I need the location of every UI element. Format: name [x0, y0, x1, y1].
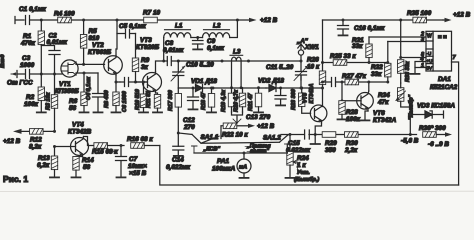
junction — [314, 133, 317, 136]
resistor R27 — [342, 73, 367, 85]
resistor R14 — [73, 157, 94, 177]
ground — [361, 119, 370, 121]
wire +12V arrow right — [443, 12, 471, 23]
svg-text:R14: R14 — [82, 157, 94, 164]
svg-text:W: W — [427, 34, 432, 40]
svg-text:+12 В: +12 В — [453, 12, 471, 19]
svg-text:КТ342А: КТ342А — [309, 84, 315, 104]
svg-text:R25 33 к: R25 33 к — [330, 53, 356, 60]
capacitor C12 — [183, 88, 199, 131]
svg-text:910: 910 — [89, 35, 100, 42]
inductor L3 current transformer — [230, 49, 243, 88]
svg-text:VD3 КС156А: VD3 КС156А — [417, 103, 455, 110]
resistor R7 — [143, 10, 160, 23]
ground — [112, 111, 121, 113]
wire +12V arrow top — [237, 17, 277, 24]
wire pin8 — [401, 57, 426, 59]
svg-text:R8 430: R8 430 — [104, 90, 110, 108]
capacitor C8 series — [163, 40, 184, 66]
svg-text:-U: -U — [427, 51, 432, 56]
svg-text:R3 10к: R3 10к — [46, 91, 52, 110]
ground — [80, 111, 89, 113]
svg-text:10мк×: 10мк× — [128, 163, 147, 170]
wire VT3 emitter — [156, 93, 158, 95]
resistor R20 — [234, 88, 246, 112]
wire R25 row — [323, 62, 388, 64]
junction — [341, 81, 344, 84]
wire R33 chain — [400, 20, 402, 58]
svg-text:350: 350 — [325, 147, 336, 154]
svg-text:R10 510: R10 510 — [135, 89, 141, 110]
svg-text:С5 0,1мк: С5 0,1мк — [119, 23, 147, 30]
svg-text:"Калибр": "Калибр" — [408, 94, 415, 120]
wire VT3 collector to RF line — [156, 61, 168, 72]
svg-text:С9: С9 — [207, 38, 216, 45]
transistor VT2 — [88, 42, 122, 75]
svg-text:КТ603Б: КТ603Б — [88, 49, 112, 56]
svg-text:SA1.1: SA1.1 — [201, 134, 219, 141]
transistor VT3 — [136, 37, 162, 93]
svg-text:3к: 3к — [141, 64, 149, 71]
capacitor C16 — [338, 20, 386, 34]
svg-text:VT3: VT3 — [140, 37, 152, 44]
svg-text:С13 270: С13 270 — [246, 114, 271, 121]
wire VT2 emitter to C6 — [116, 75, 120, 82]
resistor R19 — [221, 88, 235, 112]
diode VD2 — [258, 78, 284, 92]
resistor R29 — [322, 132, 337, 154]
input terminal Вход — [0, 54, 25, 78]
junction — [162, 60, 165, 63]
junction — [409, 113, 412, 116]
resistor R2 — [24, 74, 45, 111]
resistor R15 — [92, 143, 118, 156]
svg-text:= =: = = — [438, 35, 447, 41]
svg-text:R26: R26 — [307, 57, 319, 64]
svg-text:РА1: РА1 — [217, 158, 229, 165]
svg-text:XW1: XW1 — [304, 44, 319, 51]
svg-text:33к: 33к — [371, 71, 382, 78]
wire R15 to R16 — [108, 145, 125, 147]
svg-text:R17 360: R17 360 — [168, 90, 174, 111]
svg-text:DA1: DA1 — [438, 76, 451, 83]
svg-text:мА: мА — [239, 165, 247, 171]
junction — [142, 81, 145, 84]
svg-text:3: 3 — [421, 37, 424, 43]
svg-text:100мкА: 100мкА — [212, 166, 236, 173]
junction — [321, 61, 324, 64]
svg-text:R12: R12 — [30, 137, 42, 144]
resistor R25 — [330, 53, 356, 65]
capacitor C4 — [86, 73, 104, 111]
svg-text:+U: +U — [427, 58, 433, 63]
wire rail top right — [323, 19, 444, 21]
node R33 top — [399, 19, 402, 22]
resistor R12 — [29, 129, 43, 151]
svg-text:R22 10 к: R22 10 к — [222, 132, 248, 139]
capacitor C2 — [41, 33, 67, 75]
junction — [321, 81, 324, 84]
svg-text:R18 47: R18 47 — [201, 91, 207, 110]
resistor R36 — [410, 125, 452, 148]
svg-text:270: 270 — [183, 124, 195, 131]
resistor R33 — [398, 60, 412, 83]
junction — [53, 145, 56, 148]
svg-text:КТ342А: КТ342А — [373, 117, 397, 124]
capacitor C7 — [112, 146, 147, 178]
svg-text:4: 4 — [420, 57, 424, 63]
resistor R16 — [127, 136, 153, 148]
capacitor C13 — [246, 88, 286, 121]
svg-text:R16 68 к: R16 68 к — [127, 136, 153, 143]
svg-text:SA1.2: SA1.2 — [263, 135, 281, 142]
svg-text:R24: R24 — [297, 155, 309, 162]
ground — [240, 177, 249, 179]
svg-text:R5: R5 — [89, 28, 98, 35]
svg-text:R7 10: R7 10 — [143, 10, 160, 17]
junction — [82, 63, 85, 66]
ground — [117, 176, 126, 178]
junction — [386, 61, 389, 64]
resistor R9 — [132, 34, 149, 83]
resistor R1 — [20, 20, 45, 74]
svg-text:0,01мк: 0,01мк — [47, 39, 68, 46]
svg-text:VT4: VT4 — [72, 122, 84, 129]
ground — [338, 118, 347, 120]
svg-text:R28: R28 — [346, 109, 358, 116]
svg-text:С1 0,1мк: С1 0,1мк — [19, 6, 47, 13]
junction — [134, 81, 137, 84]
pin 1 ground — [411, 63, 427, 74]
svg-text:+12 В: +12 В — [3, 138, 21, 145]
resistor R4 — [54, 11, 75, 23]
svg-text:0,1мк: 0,1мк — [207, 45, 225, 52]
svg-text:2,2к: 2,2к — [344, 147, 358, 154]
svg-text:R34: R34 — [378, 92, 390, 99]
diode VD1 — [191, 78, 217, 92]
wire RF line — [178, 60, 301, 62]
svg-text:С12: С12 — [183, 117, 195, 124]
svg-text:R15 68 к: R15 68 к — [92, 149, 118, 156]
ground — [276, 104, 285, 106]
transistor VT4 — [68, 122, 92, 157]
resistor R35 — [407, 10, 432, 23]
junction — [116, 19, 119, 22]
svg-text:R21 47: R21 47 — [248, 92, 254, 111]
capacitor C15 — [286, 130, 311, 154]
svg-text:R29: R29 — [325, 140, 337, 147]
wire rail top — [41, 19, 238, 21]
junction — [341, 99, 344, 102]
junction — [212, 87, 215, 90]
wire pin2 — [369, 36, 426, 38]
junction — [115, 81, 118, 84]
junction — [368, 61, 371, 64]
wire VT5 emitter — [315, 123, 321, 135]
svg-text:R9: R9 — [141, 57, 150, 64]
junction — [53, 73, 56, 76]
junction — [342, 19, 345, 22]
capacitor C1 — [19, 6, 47, 25]
svg-text:R33 33к: R33 33к — [405, 60, 411, 82]
trimmer R24 — [287, 135, 320, 184]
svg-text:6,2к: 6,2к — [37, 162, 50, 169]
svg-text:R20 4,7к: R20 4,7к — [234, 89, 240, 112]
resistor R3 — [46, 74, 58, 131]
resistor R6 — [69, 73, 87, 112]
wire meter row — [281, 134, 410, 136]
svg-text:КП350Б: КП350Б — [55, 88, 79, 95]
svg-text:-5,6 В: -5,6 В — [401, 138, 419, 145]
svg-text:С7: С7 — [129, 156, 138, 163]
svg-text:VT5: VT5 — [303, 92, 309, 103]
svg-text:0V: 0V — [427, 66, 434, 71]
variable capacitor C11 — [266, 61, 308, 88]
wire to VT2 base — [84, 63, 105, 65]
ground — [139, 111, 148, 113]
junction — [221, 60, 224, 63]
zener VD3 — [410, 103, 455, 119]
pin 4 — [415, 57, 426, 73]
ground — [50, 176, 59, 178]
svg-text:„КСВ": „КСВ" — [203, 147, 221, 153]
resistor R21 — [248, 88, 262, 111]
junction — [210, 87, 213, 90]
svg-text:(Калибр.): (Калибр.) — [294, 176, 319, 183]
meter PA1 — [194, 153, 287, 177]
svg-text:Вход: Вход — [0, 54, 6, 68]
svg-text:С14: С14 — [172, 157, 184, 164]
transistor VT6 — [357, 91, 397, 124]
transistor VT5 — [303, 84, 327, 123]
wire -5.6V node — [409, 133, 412, 136]
junction — [386, 81, 389, 84]
wire VT1 drain — [76, 62, 84, 64]
svg-text:R23 360: R23 360 — [291, 89, 297, 110]
node A — [40, 19, 43, 22]
junction — [279, 87, 282, 90]
resistor R28 — [339, 101, 361, 123]
ground — [153, 111, 162, 113]
paper crease line — [0, 190, 474, 192]
svg-text:С3: С3 — [22, 55, 31, 62]
wire VT6 collector — [368, 82, 370, 91]
wire R19 R20 join to R22 — [232, 112, 243, 123]
resistor R17 — [168, 88, 182, 146]
svg-text:R19 4,3к: R19 4,3к — [221, 89, 227, 112]
svg-text:1 к: 1 к — [297, 162, 306, 169]
svg-text:С8: С8 — [165, 40, 174, 47]
inductor L1 — [164, 23, 191, 62]
wire bottom loop — [160, 146, 459, 186]
wire +12V left feed — [3, 131, 55, 145]
wire to SA1.1 — [178, 133, 192, 134]
svg-text:R36* 300: R36* 300 — [419, 125, 446, 132]
svg-text:470к: 470к — [20, 40, 36, 47]
capacitor C3 — [20, 55, 62, 79]
svg-text:Рис. 1: Рис. 1 — [3, 174, 28, 184]
svg-text:R35 100: R35 100 — [407, 10, 432, 17]
svg-text:С10 5..20: С10 5..20 — [186, 62, 214, 69]
pin 7 wire — [452, 55, 459, 185]
svg-text:100к: 100к — [24, 101, 39, 108]
junction — [82, 19, 85, 22]
junction — [83, 72, 86, 75]
junction — [196, 36, 199, 39]
wire bridge line — [178, 87, 322, 89]
svg-text:С6 1000: С6 1000 — [122, 91, 128, 112]
junction — [243, 152, 246, 155]
ground — [189, 108, 198, 110]
svg-text:L1: L1 — [175, 23, 183, 30]
ground — [254, 111, 263, 113]
resistor R13 — [37, 147, 58, 177]
capacitor C9 — [193, 38, 225, 53]
junction — [257, 86, 260, 89]
arrowhead left — [13, 129, 22, 134]
wire VT2 collector — [116, 20, 117, 56]
wire R27 row with series cap — [323, 78, 388, 87]
svg-text:VT2: VT2 — [92, 42, 104, 49]
junction — [399, 56, 402, 59]
svg-text:-6 ..9 В: -6 ..9 В — [428, 141, 449, 148]
resistor R31 — [352, 37, 372, 63]
junction — [177, 132, 180, 135]
resistor R32 — [371, 42, 391, 83]
svg-text:К521СА2: К521СА2 — [430, 84, 458, 91]
svg-text:1: 1 — [421, 63, 424, 69]
svg-text:От ГСС: От ГСС — [7, 80, 33, 87]
ground — [174, 155, 183, 157]
junction — [289, 133, 292, 136]
svg-text:+12 В: +12 В — [260, 17, 278, 24]
ground — [72, 176, 81, 178]
potentiometer R22 — [221, 115, 275, 139]
junction — [53, 130, 56, 133]
svg-text:R27 47к: R27 47к — [342, 73, 367, 80]
svg-text:56: 56 — [83, 164, 91, 171]
label forward wave — [245, 144, 271, 155]
junction — [247, 60, 250, 63]
node C10 — [177, 60, 180, 63]
variable capacitor C10 — [171, 61, 214, 88]
resistor R11 — [146, 91, 161, 111]
wire VT1 source — [76, 73, 98, 75]
svg-text:10 к: 10 к — [307, 64, 320, 71]
svg-text:×15 В: ×15 В — [129, 170, 147, 177]
svg-text:0,022мк: 0,022мк — [166, 164, 191, 171]
input terminal top — [15, 17, 24, 24]
switch SA1.1 — [192, 134, 280, 153]
svg-text:КТ920Б: КТ920Б — [136, 44, 160, 51]
resistor R26 — [307, 20, 326, 106]
wire pin3 — [388, 37, 426, 43]
svg-text:8,2к: 8,2к — [29, 144, 42, 151]
svg-text:L3: L3 — [233, 49, 241, 56]
wire VT4 base — [55, 146, 76, 148]
svg-text:R30: R30 — [346, 140, 358, 147]
svg-text:R1: R1 — [23, 33, 32, 40]
ground — [94, 111, 103, 113]
comparator DA1 — [426, 31, 458, 91]
capacitor C6 series — [120, 78, 147, 113]
svg-text:1000: 1000 — [20, 62, 35, 69]
ground — [207, 111, 216, 113]
switch SA1.2 — [263, 135, 290, 154]
svg-text:R11 51: R11 51 — [146, 91, 152, 108]
svg-text:С11 5..20: С11 5..20 — [266, 64, 294, 71]
junction — [120, 144, 123, 147]
svg-text:R6: R6 — [69, 98, 78, 105]
node gate — [40, 73, 43, 76]
svg-text:VT1: VT1 — [59, 81, 71, 88]
ground R2 — [37, 111, 46, 113]
trimmer R34 — [377, 83, 415, 135]
wire VT4 collector — [84, 137, 95, 146]
junction — [300, 87, 303, 90]
junction — [300, 87, 303, 90]
junction — [192, 87, 195, 90]
svg-text:VT6: VT6 — [373, 110, 385, 117]
svg-text:47к: 47к — [377, 99, 389, 106]
svg-text:С16 0,1мк: С16 0,1мк — [354, 25, 385, 32]
junction — [240, 86, 243, 89]
ground C15 node — [311, 135, 321, 145]
svg-text:+12 В: +12 В — [257, 123, 275, 130]
resistor R8 — [104, 82, 119, 111]
svg-text:VD1 Д18: VD1 Д18 — [191, 78, 217, 85]
resistor R18 — [201, 88, 215, 111]
ground VT6 emitter — [365, 111, 368, 119]
ground — [286, 177, 295, 179]
junction — [367, 81, 370, 84]
resistor R5 — [80, 20, 99, 64]
ground — [193, 48, 202, 50]
junction — [300, 60, 303, 63]
svg-text:Уст.: Уст. — [297, 170, 310, 176]
svg-text:КТ342В: КТ342В — [68, 129, 92, 136]
antenna connector XW1 — [296, 38, 309, 61]
svg-text:0,01мк: 0,01мк — [163, 47, 184, 54]
svg-text:100к: 100к — [346, 116, 361, 123]
transistor VT1 dual-gate FET — [55, 60, 79, 95]
svg-text:С4 0,1мк: С4 0,1мк — [86, 76, 92, 100]
capacitor C14 — [166, 146, 191, 171]
ground — [339, 34, 348, 36]
wire VT6 base R28 — [342, 82, 361, 101]
svg-text:33к: 33к — [352, 43, 363, 50]
svg-text:56: 56 — [69, 105, 77, 112]
resistor R30 — [344, 132, 358, 154]
svg-text:R2: R2 — [26, 94, 35, 101]
svg-text:VD2 Д18: VD2 Д18 — [258, 78, 284, 85]
junction — [321, 87, 324, 90]
svg-text:R4 100: R4 100 — [54, 11, 75, 18]
svg-text:R13: R13 — [38, 155, 50, 162]
inductor L2 — [191, 20, 238, 38]
capacitor C5 — [117, 23, 147, 38]
svg-text:R32: R32 — [371, 64, 383, 71]
junction — [230, 86, 233, 89]
svg-text:2: 2 — [420, 32, 424, 38]
resistor R23 — [291, 88, 311, 113]
wire R16 right — [144, 145, 160, 147]
svg-text:L2: L2 — [213, 23, 221, 30]
resistor R10 — [135, 82, 147, 111]
junction — [236, 19, 239, 22]
